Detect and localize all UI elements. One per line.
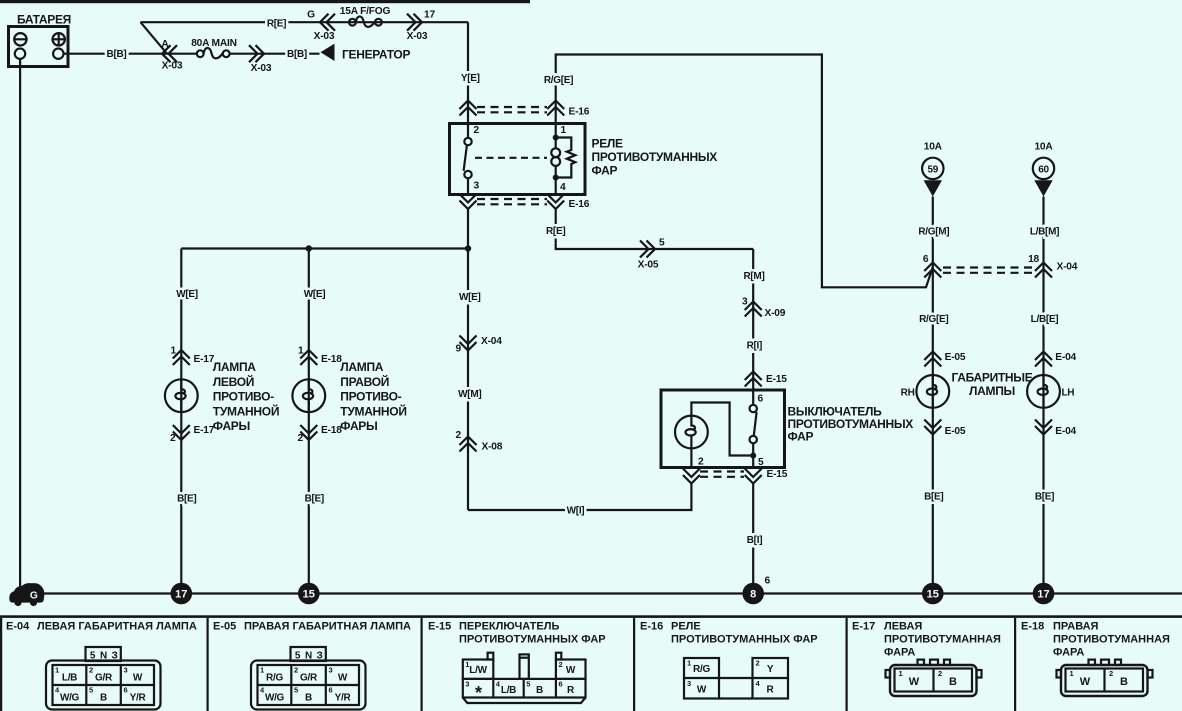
svg-text:W: W	[1080, 676, 1091, 688]
svg-text:RH: RH	[901, 388, 915, 399]
connector drawing E-16	[684, 658, 788, 699]
switch contacts pins 6-5	[750, 390, 765, 468]
svg-text:W[E]: W[E]	[459, 292, 481, 303]
svg-text:3: 3	[465, 680, 469, 689]
switch name label	[788, 405, 914, 444]
svg-text:W[E]: W[E]	[176, 289, 198, 300]
svg-text:E-16: E-16	[569, 107, 590, 118]
svg-text:3: 3	[742, 297, 748, 308]
svg-text:1: 1	[260, 666, 264, 675]
svg-text:R/G[M]: R/G[M]	[918, 227, 949, 238]
svg-text:B: B	[536, 685, 543, 696]
svg-text:ПРОТИВО-: ПРОТИВО-	[340, 390, 401, 404]
svg-text:1: 1	[55, 666, 59, 675]
svg-text:B[E]: B[E]	[177, 494, 196, 505]
fog lamp bulb E-17	[165, 379, 198, 412]
wire R[M]/R[I] to fog switch	[743, 249, 764, 390]
svg-text:2: 2	[756, 659, 760, 668]
svg-text:G/R: G/R	[300, 673, 318, 684]
svg-text:ПРАВОЙ: ПРАВОЙ	[340, 374, 389, 389]
svg-text:B[B]: B[B]	[107, 49, 127, 60]
connector E-15 pin 6 (above switch)	[745, 372, 788, 387]
svg-text:R/G[E]: R/G[E]	[544, 75, 573, 86]
connector drawing E-18	[1057, 660, 1153, 696]
fuse 10A #59	[922, 142, 943, 197]
connector X-03 main fuse output	[249, 45, 272, 74]
relay box (fog lamp relay)	[450, 124, 586, 195]
connector E-16 pin 1 (top right chevron)	[547, 101, 590, 118]
relay switch contact pins 2-3	[464, 124, 547, 195]
svg-text:W: W	[133, 673, 143, 684]
svg-text:Y: Y	[767, 664, 774, 675]
svg-text:ЛЕВАЯ: ЛЕВАЯ	[884, 621, 922, 633]
svg-text:W[E]: W[E]	[304, 289, 326, 300]
svg-text:B[E]: B[E]	[305, 494, 324, 505]
svg-text:ПЕРЕКЛЮЧАТЕЛЬ: ПЕРЕКЛЮЧАТЕЛЬ	[459, 621, 559, 633]
svg-text:R[M]: R[M]	[743, 271, 764, 282]
connector 2 X-08	[456, 430, 503, 453]
svg-text:R: R	[567, 685, 575, 696]
connector X-04 harness dashes	[943, 268, 1034, 273]
connector A X-03	[161, 39, 182, 72]
svg-text:E-18: E-18	[1021, 621, 1044, 633]
node junction right fog lamp	[306, 245, 312, 251]
ground node 15 at x=308.8	[298, 583, 320, 605]
wire R[E] branch diagonal	[141, 22, 168, 54]
svg-text:ФАРА: ФАРА	[1053, 647, 1084, 659]
svg-text:*: *	[475, 683, 482, 703]
svg-text:ЛАМПА: ЛАМПА	[213, 360, 257, 374]
connector X-04 (LH)	[1028, 254, 1052, 278]
svg-text:E-05: E-05	[945, 352, 966, 363]
connector E-16 harness dashes bottom	[477, 199, 547, 204]
svg-text:E-15: E-15	[767, 469, 788, 480]
connector E-18 pin 1	[298, 346, 342, 366]
ground node 8 at x=753.2	[742, 583, 764, 605]
svg-text:Y/R: Y/R	[335, 693, 352, 704]
svg-text:РЕЛЕ: РЕЛЕ	[592, 137, 624, 151]
wire L/B[M]/L/B[E] to position lamp LH	[1030, 197, 1059, 584]
wire R[E] top line	[141, 18, 469, 29]
connector E-16 pin 3 (bottom left chevron)	[460, 194, 477, 209]
svg-text:3: 3	[687, 679, 691, 688]
ground bus	[40, 592, 1182, 594]
svg-text:6: 6	[923, 254, 929, 265]
svg-text:10A: 10A	[1034, 142, 1053, 153]
svg-text:1: 1	[687, 659, 691, 668]
svg-text:ЛЕВАЯ ГАБАРИТНАЯ ЛАМПА: ЛЕВАЯ ГАБАРИТНАЯ ЛАМПА	[37, 621, 197, 633]
svg-text:ПРАВАЯ ГАБАРИТНАЯ ЛАМПА: ПРАВАЯ ГАБАРИТНАЯ ЛАМПА	[244, 621, 411, 633]
wire battery negative to ground	[19, 59, 21, 590]
position lamp bulb RH	[916, 375, 949, 408]
svg-text:LH: LH	[1062, 388, 1075, 399]
svg-text:1: 1	[298, 346, 304, 357]
svg-text:E-18: E-18	[321, 425, 342, 436]
ground node 17 at x=181.3	[171, 583, 193, 605]
svg-text:ГАБАРИТНЫЕ: ГАБАРИТНЫЕ	[952, 371, 1033, 385]
label position lamps	[952, 371, 1033, 398]
relay name label	[592, 137, 718, 178]
connector E-16 pin 2 (top left chevron)	[460, 101, 477, 116]
generator	[321, 44, 411, 62]
svg-text:W/G: W/G	[265, 693, 285, 704]
svg-text:2: 2	[298, 433, 304, 444]
svg-text:59: 59	[928, 164, 939, 175]
svg-text:ПРОТИВОТУМАННЫХ ФАР: ПРОТИВОТУМАННЫХ ФАР	[671, 634, 818, 646]
connector X-04 (RH)	[923, 254, 941, 278]
svg-text:2: 2	[1109, 669, 1113, 678]
svg-text:ЛАМПА: ЛАМПА	[340, 360, 384, 374]
fuse 80A MAIN	[191, 38, 237, 59]
svg-text:B: B	[1120, 676, 1128, 688]
svg-text:2: 2	[559, 660, 563, 669]
wire R/G[E] from relay pin 1 to fog fuse line	[544, 55, 933, 288]
connector E-16 harness dashes top	[477, 107, 547, 112]
table header E-15	[428, 621, 606, 646]
svg-text:X-04: X-04	[481, 336, 502, 347]
wire Y[E] down to relay	[461, 22, 480, 123]
connector drawing E-17	[886, 660, 982, 696]
svg-text:L/B: L/B	[62, 673, 77, 684]
svg-text:5: 5	[659, 238, 665, 249]
svg-text:1: 1	[465, 660, 469, 669]
svg-text:6: 6	[124, 686, 128, 695]
svg-text:X-03: X-03	[251, 63, 272, 74]
svg-text:X-03: X-03	[314, 31, 335, 42]
svg-text:G: G	[307, 10, 315, 21]
svg-text:R[I]: R[I]	[747, 341, 762, 352]
svg-text:17: 17	[424, 10, 435, 21]
svg-text:6: 6	[765, 576, 771, 587]
wire fuse to generator	[230, 49, 320, 60]
position lamp bulb LH	[1027, 375, 1060, 408]
svg-text:5: 5	[758, 457, 764, 468]
svg-text:Y/R: Y/R	[130, 693, 147, 704]
svg-text:L/B: L/B	[501, 685, 516, 696]
svg-text:E-17: E-17	[194, 425, 215, 436]
svg-text:R: R	[767, 685, 775, 696]
svg-text:ФАРЫ: ФАРЫ	[213, 419, 250, 433]
table header E-05	[213, 621, 411, 633]
svg-text:X-03: X-03	[407, 31, 428, 42]
svg-text:2: 2	[456, 430, 462, 441]
svg-text:B: B	[100, 693, 107, 704]
wire B[I] switch to ground node 8	[747, 484, 762, 584]
connector E-15 pin 5 (below switch)	[745, 469, 788, 484]
svg-text:X-03: X-03	[162, 61, 183, 72]
svg-text:B: B	[305, 693, 312, 704]
label fog lamp ПРАВОЙ	[340, 360, 406, 433]
ground node 17 at x=1043.5	[1033, 583, 1055, 605]
svg-text:E-15: E-15	[428, 621, 451, 633]
relay coil with resistor pins 1-4	[551, 124, 575, 195]
svg-text:ФАР: ФАР	[592, 164, 618, 178]
svg-text:E-04: E-04	[6, 621, 30, 633]
svg-text:4: 4	[560, 182, 566, 193]
svg-text:15: 15	[927, 589, 939, 601]
wire R/G[M]/R/G[E] to position lamp RH	[918, 197, 949, 584]
svg-text:E-16: E-16	[640, 621, 663, 633]
svg-text:РЕЛЕ: РЕЛЕ	[671, 621, 701, 633]
svg-text:ГЕНЕРАТОР: ГЕНЕРАТОР	[342, 48, 410, 62]
connector G X-03	[307, 10, 335, 42]
table header E-17	[852, 621, 1001, 659]
svg-text:Y[E]: Y[E]	[461, 73, 480, 84]
svg-text:5: 5	[89, 686, 93, 695]
table header E-04	[6, 621, 197, 633]
svg-text:E-15: E-15	[766, 374, 787, 385]
switch illumination lamp	[675, 403, 753, 468]
svg-text:ПРОТИВОТУМАННЫХ: ПРОТИВОТУМАННЫХ	[592, 150, 718, 164]
svg-text:3: 3	[474, 181, 480, 192]
svg-text:1: 1	[899, 669, 903, 678]
svg-text:3: 3	[124, 666, 128, 675]
svg-text:B[E]: B[E]	[924, 492, 943, 503]
svg-text:2: 2	[698, 457, 704, 468]
svg-text:E-16: E-16	[569, 199, 590, 210]
svg-text:БАТАРЕЯ: БАТАРЕЯ	[17, 13, 71, 27]
svg-text:E-18: E-18	[321, 354, 342, 365]
svg-text:2: 2	[294, 666, 298, 675]
wire W[E]/W[M] relay pin 3 down	[458, 209, 481, 510]
label fog lamp ЛЕВОЙ	[213, 360, 279, 433]
connector E-18 pin 2	[298, 425, 343, 444]
svg-text:G/R: G/R	[95, 673, 113, 684]
svg-text:ФАР: ФАР	[788, 430, 814, 444]
svg-text:E-05: E-05	[213, 621, 236, 633]
svg-text:ПРОТИВОТУМАННАЯ: ПРОТИВОТУМАННАЯ	[884, 634, 1001, 646]
svg-text:B: B	[949, 676, 957, 688]
ground node 15 at x=932.8	[922, 583, 944, 605]
svg-text:G: G	[30, 591, 38, 602]
svg-text:ФАРЫ: ФАРЫ	[340, 419, 377, 433]
svg-text:6: 6	[559, 680, 563, 689]
svg-text:E-04: E-04	[1055, 352, 1076, 363]
svg-text:X-09: X-09	[765, 308, 786, 319]
connector 5 X-05	[638, 238, 665, 271]
svg-text:18: 18	[1028, 254, 1039, 265]
svg-text:L/B[E]: L/B[E]	[1031, 314, 1059, 325]
connector E-04 top	[1035, 352, 1077, 367]
connector E-05 bottom	[924, 420, 966, 438]
svg-text:1: 1	[171, 346, 177, 357]
svg-text:E-17: E-17	[194, 354, 215, 365]
wire distribution line to fog lamps	[181, 247, 468, 249]
wire R[E] relay pin 4 to connector X-05	[546, 209, 753, 249]
svg-text:ПРАВАЯ: ПРАВАЯ	[1053, 621, 1099, 633]
connector 3 X-09	[742, 297, 786, 320]
svg-text:E-04: E-04	[1055, 426, 1076, 437]
fuse 15A F/FOG	[340, 6, 391, 27]
svg-text:E-05: E-05	[945, 426, 966, 437]
svg-text:X-04: X-04	[1057, 262, 1078, 273]
svg-text:ТУМАННОЙ: ТУМАННОЙ	[213, 403, 279, 418]
svg-text:W: W	[566, 665, 576, 676]
fuse 10A #60	[1033, 142, 1054, 197]
wire W[I] switch lamp feed	[468, 484, 691, 517]
svg-text:ЛЕВОЙ: ЛЕВОЙ	[213, 374, 254, 389]
svg-text:W: W	[338, 673, 348, 684]
svg-text:ПРОТИВО-: ПРОТИВО-	[213, 390, 274, 404]
connector E-17 pin 1	[171, 346, 215, 366]
svg-text:B[B]: B[B]	[287, 49, 307, 60]
table header E-16	[640, 621, 818, 646]
wire W[E] to E-17 fog lamp	[176, 249, 198, 584]
svg-text:B[I]: B[I]	[747, 535, 762, 546]
connector E-16 pin 4 (bottom right chevron)	[547, 194, 590, 210]
svg-text:17: 17	[1037, 589, 1049, 601]
svg-text:X-08: X-08	[482, 442, 503, 453]
fog lamp switch box	[661, 390, 785, 468]
svg-text:5: 5	[294, 686, 298, 695]
svg-text:R/G: R/G	[266, 673, 283, 684]
svg-text:6: 6	[758, 394, 764, 405]
svg-text:R/G[E]: R/G[E]	[919, 314, 948, 325]
fog lamp bulb E-18	[292, 379, 325, 412]
svg-text:R[E]: R[E]	[546, 226, 565, 237]
svg-text:X-05: X-05	[638, 260, 659, 271]
svg-text:W[M]: W[M]	[458, 389, 481, 400]
svg-text:2: 2	[938, 669, 942, 678]
svg-text:2: 2	[170, 433, 176, 444]
svg-text:ФАРА: ФАРА	[884, 647, 915, 659]
battery	[9, 13, 72, 67]
node distribution junction	[465, 245, 471, 251]
connector E-17 pin 2	[170, 425, 215, 444]
svg-text:R[E]: R[E]	[267, 18, 286, 29]
svg-text:L/W: L/W	[469, 665, 487, 676]
svg-text:ПРОТИВОТУМАННЫХ ФАР: ПРОТИВОТУМАННЫХ ФАР	[459, 634, 606, 646]
connector drawing E-15	[463, 653, 586, 703]
svg-text:A: A	[161, 39, 169, 50]
svg-text:80A MAIN: 80A MAIN	[191, 38, 237, 49]
svg-text:5: 5	[526, 680, 530, 689]
svg-text:15: 15	[303, 589, 315, 601]
svg-text:60: 60	[1038, 164, 1049, 175]
connector 17 X-03	[407, 10, 436, 42]
ground body symbol G (car)	[9, 583, 44, 606]
svg-text:W/G: W/G	[60, 693, 80, 704]
svg-text:B[E]: B[E]	[1035, 492, 1054, 503]
svg-text:1: 1	[1070, 669, 1074, 678]
svg-text:E-17: E-17	[852, 621, 875, 633]
svg-text:R/G: R/G	[693, 664, 710, 675]
svg-text:17: 17	[175, 589, 187, 601]
connector E-05 top	[924, 352, 966, 367]
svg-text:2: 2	[89, 666, 93, 675]
svg-text:W[I]: W[I]	[567, 506, 585, 517]
svg-text:6: 6	[329, 686, 333, 695]
svg-text:3: 3	[329, 666, 333, 675]
wire W[E] to E-18 fog lamp	[304, 249, 326, 584]
svg-text:15A F/FOG: 15A F/FOG	[340, 6, 391, 17]
connector drawing E-05	[251, 647, 366, 710]
table header E-18	[1021, 621, 1170, 659]
wire B[B] battery to junction A	[64, 49, 198, 60]
connector E-15 pin 2 (below switch)	[683, 469, 700, 484]
svg-text:1: 1	[561, 125, 567, 136]
svg-text:W: W	[697, 685, 707, 696]
connector drawing E-04	[46, 647, 161, 710]
svg-text:W: W	[909, 676, 920, 688]
svg-text:ТУМАННОЙ: ТУМАННОЙ	[340, 403, 406, 418]
svg-text:2: 2	[474, 125, 480, 136]
connector table border	[0, 615, 1182, 618]
connector 9 X-04	[456, 336, 503, 355]
svg-text:8: 8	[750, 589, 756, 601]
svg-text:10A: 10A	[924, 142, 943, 153]
svg-text:ПРОТИВОТУМАННАЯ: ПРОТИВОТУМАННАЯ	[1053, 634, 1170, 646]
connector E-15 harness dashes bottom	[700, 472, 744, 477]
svg-text:ЛАМПЫ: ЛАМПЫ	[969, 384, 1015, 398]
svg-text:9: 9	[456, 344, 462, 355]
connector E-04 bottom	[1035, 420, 1077, 438]
svg-text:L/B[M]: L/B[M]	[1030, 227, 1059, 238]
